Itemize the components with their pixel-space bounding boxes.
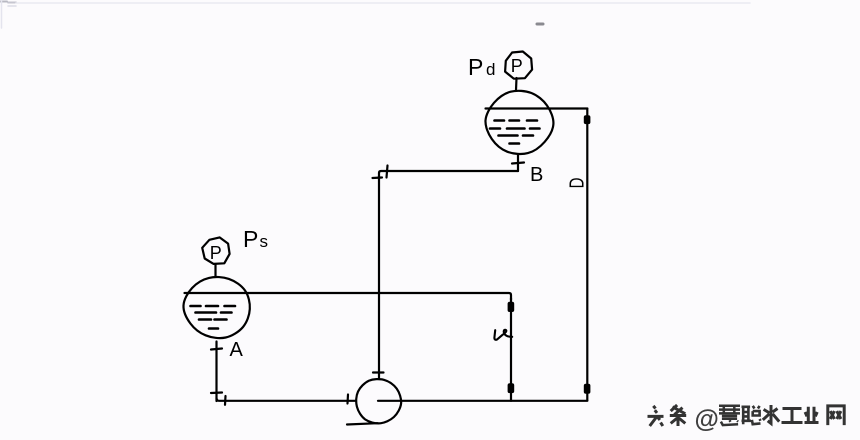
tick on stem A lower [211, 391, 222, 394]
pressure gauge P (suction) [202, 237, 229, 264]
node on wire D top [584, 115, 591, 124]
svg-text:P: P [210, 243, 222, 263]
valve handle squiggle S [494, 330, 512, 340]
node valve top [508, 302, 515, 312]
svg-text:P: P [511, 56, 523, 76]
svg-text:s: s [260, 232, 269, 251]
svg-text:B: B [530, 164, 543, 186]
scan artifact marks top-left [0, 1, 7, 3]
node on wire D bottom [584, 384, 591, 394]
wire gauge Ps to vessel A [214, 265, 216, 277]
tick on vertical wire [373, 176, 383, 179]
tick above pump inlet [373, 371, 384, 373]
wire D vertical [586, 109, 588, 401]
vessel A outlet stem [215, 342, 217, 402]
node valve bottom [508, 383, 515, 393]
wm char 头 [648, 406, 664, 426]
pump [356, 379, 401, 423]
wire gauge Pd to vessel B [515, 78, 518, 90]
wire down to pump [378, 176, 380, 379]
svg-text:P: P [468, 54, 483, 80]
tick on stem B [512, 163, 524, 164]
vessel B lid line [486, 107, 588, 109]
vessel B [485, 91, 553, 154]
wire vessel B to downpipe (horizontal y171) [379, 171, 518, 179]
wire vessel A lid to valve branch (long horizontal y293) [185, 293, 512, 300]
vessel A liquid dashes [191, 306, 236, 329]
vessel B liquid dashes [490, 121, 540, 144]
svg-text:@: @ [695, 406, 719, 434]
wm char 业 [805, 407, 819, 423]
pressure gauge P (discharge) [505, 52, 532, 79]
wm char 慧 [719, 405, 740, 425]
valve branch vertical wire [510, 298, 512, 401]
wm char 工 [782, 409, 803, 423]
tick at pump suction [346, 395, 349, 404]
label B [530, 164, 543, 186]
svg-text:d: d [486, 60, 495, 79]
label Ps [243, 226, 268, 252]
wm char 网 [828, 406, 844, 425]
wm char 水 [763, 405, 779, 423]
tick on horizontal wire [387, 166, 388, 178]
svg-text:P: P [243, 226, 258, 252]
vessel A [183, 277, 249, 338]
wire bottom suction line [217, 398, 357, 401]
pump outlet line from center [378, 400, 587, 402]
svg-text:D: D [565, 178, 588, 189]
label D [565, 178, 588, 189]
watermark 头条 @慧聪水工业网 [648, 405, 845, 426]
label Pd [468, 54, 495, 80]
wm char 聪 [742, 406, 761, 424]
vessel B outlet stem [517, 155, 519, 171]
svg-text:A: A [230, 339, 244, 361]
tick on stem A [211, 349, 222, 350]
label A [230, 339, 244, 361]
tick on bottom wire [224, 396, 227, 405]
wm char 条 [670, 405, 686, 426]
pump base tangent line [347, 423, 378, 424]
